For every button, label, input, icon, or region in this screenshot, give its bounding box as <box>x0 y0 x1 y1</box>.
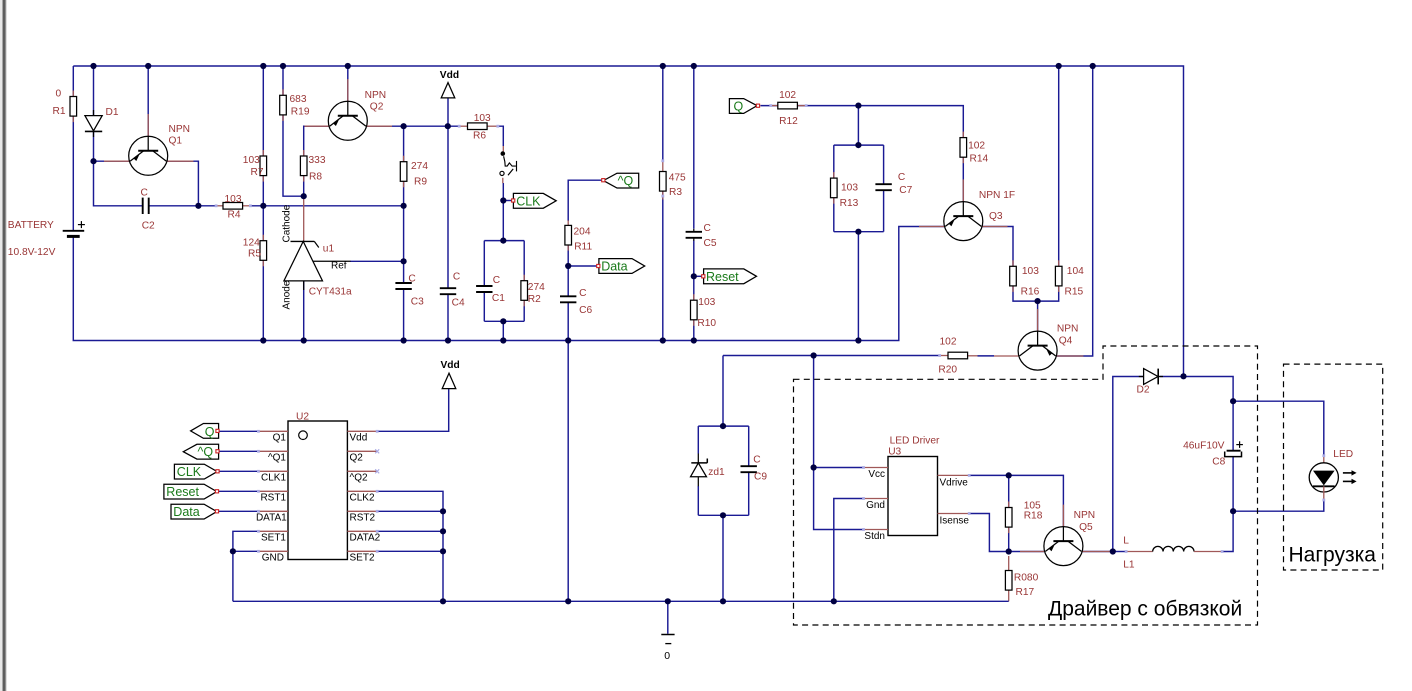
svg-text:Q3: Q3 <box>989 211 1003 222</box>
resistor R19 <box>280 89 310 121</box>
terminal CLK (top) <box>512 193 557 208</box>
resistor R9 <box>400 156 428 188</box>
wire: C8 node down to L1 right <box>1222 511 1233 551</box>
svg-text:RST2: RST2 <box>350 513 376 524</box>
wire: Q1 emitter to D1 node <box>94 160 130 162</box>
wire: Reset tag stub <box>694 275 702 277</box>
wire: Gnd pin down to ground rail <box>834 499 864 602</box>
svg-text:Vdd: Vdd <box>440 70 459 81</box>
resistor R16 <box>1010 260 1040 297</box>
wire: D2 cathode to C8 corner <box>1160 376 1184 378</box>
window border strip <box>0 0 7 691</box>
svg-text:C: C <box>493 275 500 286</box>
svg-text:D2: D2 <box>1137 385 1150 396</box>
svg-text:SET2: SET2 <box>350 553 375 564</box>
svg-text:Vdrive: Vdrive <box>940 477 969 488</box>
svg-text:124: 124 <box>243 237 260 248</box>
wire: R4 right to R9 column <box>250 205 404 207</box>
junction node R8/R19/cathode <box>301 193 307 199</box>
svg-text:C2: C2 <box>142 220 155 231</box>
Vdd symbol (U2) <box>441 360 460 388</box>
diode D1 <box>85 107 119 137</box>
IC U3 LED Driver <box>864 436 970 543</box>
svg-text:NPN: NPN <box>1057 324 1079 335</box>
svg-text:102: 102 <box>779 90 796 101</box>
wire: u1 ref to C3 column <box>350 260 404 262</box>
svg-text:103: 103 <box>225 194 242 205</box>
capacitor C5 <box>686 223 717 249</box>
svg-text:204: 204 <box>574 227 591 238</box>
terminal Data (top) <box>597 259 645 274</box>
svg-text:Vdd: Vdd <box>441 360 460 371</box>
svg-text:0: 0 <box>56 88 62 99</box>
junction node Q4 base <box>1035 298 1041 304</box>
svg-text:DATA1: DATA1 <box>256 513 287 524</box>
svg-text:Reset: Reset <box>166 485 199 499</box>
terminal ^Q (top) <box>602 173 639 188</box>
svg-text:^Q: ^Q <box>198 445 214 459</box>
svg-text:zd1: zd1 <box>708 467 725 478</box>
dashed box: load outline <box>1284 364 1383 570</box>
svg-text:NPN: NPN <box>365 90 387 101</box>
resistor R3 <box>660 162 687 200</box>
capacitor C3 <box>395 274 424 308</box>
resistor R8 <box>300 150 325 183</box>
svg-text:C: C <box>408 274 415 285</box>
svg-text:R7: R7 <box>251 167 264 178</box>
svg-text:LED: LED <box>1333 449 1353 460</box>
resistor R11 <box>565 220 593 252</box>
wire: R7 column <box>262 66 264 156</box>
svg-text:10.8V-12V: 10.8V-12V <box>8 247 56 258</box>
transistor Q2 <box>305 79 393 140</box>
svg-text:R11: R11 <box>574 242 592 253</box>
junction node D1/Q1 emitter <box>90 158 96 164</box>
wire: loop bottom to mid rail <box>857 232 859 341</box>
wire: switch bottom to CLK node and C1 loop <box>502 183 504 241</box>
svg-text:NPN 1F: NPN 1F <box>979 190 1015 201</box>
wire: R8 top from Q2 emitter <box>304 126 330 156</box>
wire: C5/R10 column <box>693 66 695 229</box>
junction nodes CLK column <box>500 197 506 324</box>
wire: C8 column <box>1232 401 1234 451</box>
svg-text:^Q2: ^Q2 <box>350 473 368 484</box>
svg-text:NPN: NPN <box>169 124 191 135</box>
junction dots on mid rail y340.5 <box>260 337 861 343</box>
svg-text:R8: R8 <box>309 172 322 183</box>
resistor R12 <box>771 90 807 127</box>
svg-text:R9: R9 <box>414 177 427 188</box>
wire: LED bottom to C8 node <box>1233 499 1324 511</box>
svg-text:274: 274 <box>411 161 428 172</box>
wire: D1 branch <box>93 66 95 115</box>
wire: Vdd column / C4 <box>447 98 449 126</box>
wire: R20 left to zd1 rail <box>723 355 940 357</box>
svg-text:0: 0 <box>664 650 670 662</box>
IC U2 flip-flop <box>256 412 381 564</box>
svg-text:R10: R10 <box>697 318 716 329</box>
wire: R16 bottom to Q4 base node <box>1013 286 1038 301</box>
svg-text:R12: R12 <box>779 116 798 127</box>
capacitor C2 <box>141 187 156 231</box>
svg-text:Q: Q <box>734 100 744 114</box>
wire: battery bottom / mid ground rail / Q3 base riser <box>73 227 944 341</box>
wire: R8 bottom to cathode node <box>303 176 305 196</box>
svg-text:Нагрузка: Нагрузка <box>1289 544 1377 567</box>
junction nodes Vcc riser <box>811 352 817 470</box>
wire: Vcc/Stdn riser <box>814 356 864 530</box>
junction node SET1/GND <box>230 548 236 554</box>
wire: Q1 collector to C2 node <box>167 161 199 206</box>
regulator u1 CYT431a <box>282 204 353 309</box>
resistor R5 <box>243 235 267 267</box>
wire: top power rail y66 with right drop <box>73 66 1183 376</box>
svg-text:R20: R20 <box>938 365 957 376</box>
svg-text:U2: U2 <box>296 412 309 423</box>
wire: U2 right bus CLK2/RST2/DATA2/SET2 <box>377 491 443 601</box>
wire: R13/C7 loop <box>834 144 884 146</box>
wire: R15 column <box>1058 66 1060 266</box>
wire: Q1 base from rail <box>147 66 149 136</box>
wire: ^Q tag to R11 <box>568 180 604 221</box>
resistor R4 <box>216 194 250 221</box>
svg-text:475: 475 <box>669 173 686 184</box>
switch SW <box>500 146 517 183</box>
capacitor C6 <box>560 288 592 316</box>
wire: R13/C7 loop feed <box>857 106 859 146</box>
svg-text:C1: C1 <box>492 293 505 304</box>
wire: zd1 column feed <box>722 356 724 427</box>
dangling pin x marks (U2 Q2 ^Q2) <box>375 449 379 473</box>
svg-text:Q: Q <box>205 425 215 439</box>
junction node Ref/C3 <box>401 258 407 264</box>
svg-text:R1: R1 <box>53 106 66 117</box>
capacitor C8 electrolytic <box>1183 441 1243 468</box>
terminal Q (U2) <box>191 424 219 439</box>
wire: R11 bottom to Data node, C6 <box>567 244 569 296</box>
svg-text:L1: L1 <box>1123 560 1135 571</box>
wire: Q5 emitter and riser to D2 <box>1081 551 1113 553</box>
pin end marks <box>215 104 1326 553</box>
dashed box: driver outline <box>794 346 1258 625</box>
svg-text:C4: C4 <box>452 298 465 309</box>
svg-text:GND: GND <box>262 553 284 564</box>
wire: ground stem <box>667 601 669 634</box>
junction node Data/R11 <box>565 263 571 269</box>
inductor L1 <box>1123 536 1222 571</box>
wire: U2 left terminal stubs <box>219 430 258 432</box>
svg-text:^Q1: ^Q1 <box>268 453 286 464</box>
terminal Data (U2) <box>171 504 219 519</box>
svg-text:Vdd: Vdd <box>350 433 368 444</box>
zener zd1 <box>691 454 726 487</box>
capacitor C4 <box>440 272 465 309</box>
svg-text:BATTERY: BATTERY <box>8 220 54 231</box>
wire: C8 node to LED top <box>1233 401 1324 456</box>
svg-text:Data: Data <box>601 260 627 274</box>
svg-text:Драйвер с обвязкой: Драйвер с обвязкой <box>1048 598 1242 621</box>
svg-text:Anode: Anode <box>282 280 293 309</box>
terminal ^Q (U2) <box>183 444 219 459</box>
junction dots Q net / R13 C7 loop <box>855 103 861 235</box>
svg-text:R3: R3 <box>669 187 682 198</box>
svg-text:Vcc: Vcc <box>868 469 885 480</box>
svg-text:Q4: Q4 <box>1059 336 1073 347</box>
wire: R18 column <box>1008 475 1010 507</box>
svg-text:Gnd: Gnd <box>866 500 885 511</box>
svg-text:Q1: Q1 <box>169 135 183 146</box>
svg-text:CYT431a: CYT431a <box>309 287 352 298</box>
capacitor C1 <box>476 275 505 304</box>
junction nodes zd1 loop <box>720 423 726 518</box>
junction nodes D2 / C8 <box>1180 373 1236 514</box>
svg-text:L: L <box>1123 536 1129 547</box>
wire: Q5 base <box>1009 551 1045 553</box>
wire: Isense net <box>969 514 1009 552</box>
svg-text:C: C <box>753 454 760 465</box>
svg-text:103: 103 <box>243 155 260 166</box>
LED <box>1309 449 1356 500</box>
terminal Q (top right) <box>729 99 759 114</box>
resistor R15 <box>1055 260 1084 297</box>
Vdd symbol (top) <box>440 70 459 98</box>
svg-text:102: 102 <box>940 336 957 347</box>
resistor R6 <box>459 113 498 141</box>
svg-text:R2: R2 <box>528 294 541 305</box>
svg-text:C9: C9 <box>754 472 767 483</box>
wire: Data tag stub <box>568 265 596 267</box>
svg-text:LED Driver: LED Driver <box>890 436 940 447</box>
svg-text:^Q: ^Q <box>618 174 634 188</box>
wire: battery top to R1 <box>72 66 74 231</box>
wire: C2 right to R4 left <box>149 205 216 207</box>
wire: Q4 base <box>1037 301 1039 331</box>
svg-text:R13: R13 <box>840 198 859 209</box>
ground symbol 0 <box>661 635 674 663</box>
svg-text:Q2: Q2 <box>350 453 364 464</box>
svg-text:274: 274 <box>528 282 545 293</box>
svg-text:Q5: Q5 <box>1079 522 1093 533</box>
wire: u1 cathode <box>303 196 305 241</box>
wire: R14 bottom to Q3 <box>962 157 964 201</box>
junction dots on Q2 collector wire <box>401 123 451 129</box>
wire: Q3 emitter to R16 <box>982 227 1014 267</box>
svg-text:46uF10V: 46uF10V <box>1183 441 1225 452</box>
svg-text:103: 103 <box>841 183 858 194</box>
junction dots on ground rail <box>440 598 837 604</box>
junction node Reset/C5 <box>691 273 697 279</box>
wire: zd1/C9 loop <box>698 425 748 427</box>
terminal Reset (top) <box>702 269 757 284</box>
svg-text:333: 333 <box>309 155 326 166</box>
svg-text:R16: R16 <box>1021 286 1040 297</box>
svg-text:Stdn: Stdn <box>864 531 885 542</box>
svg-text:C6: C6 <box>579 305 592 316</box>
wire: CLK tag stub <box>503 200 511 202</box>
svg-text:104: 104 <box>1067 266 1084 277</box>
wire: Q2 base from rail <box>347 66 349 101</box>
transistor Q4 <box>994 309 1083 370</box>
svg-text:C7: C7 <box>899 185 912 196</box>
wire: R6 right to switch <box>498 126 504 146</box>
svg-text:C5: C5 <box>704 238 717 249</box>
resistor R14 <box>960 132 989 165</box>
wire: u1 anode down <box>303 281 305 341</box>
svg-text:R6: R6 <box>473 130 486 141</box>
svg-text:CLK: CLK <box>516 194 541 208</box>
svg-text:RST1: RST1 <box>260 493 286 504</box>
junction dots on U2 right bus <box>440 508 446 554</box>
wire: R9 / C3 column <box>403 126 405 162</box>
transistor Q5 <box>1020 505 1111 566</box>
svg-text:R080: R080 <box>1014 573 1039 584</box>
resistor R13 <box>831 172 859 209</box>
svg-text:R14: R14 <box>970 154 989 165</box>
wire: Vdrive net <box>969 475 1063 526</box>
svg-text:Cathode: Cathode <box>282 204 293 242</box>
capacitor C7 <box>875 172 912 196</box>
junction nodes Vdrive / Q5 base / Q5 emitter <box>1006 472 1116 554</box>
svg-text:Q1: Q1 <box>273 433 287 444</box>
svg-text:103: 103 <box>474 113 491 124</box>
wire: U2 Vdd pin to Vdd arrow <box>377 389 449 432</box>
svg-text:R19: R19 <box>291 106 310 117</box>
wire: Q4 emitter to top rail <box>1056 66 1093 356</box>
capacitor C9 <box>741 454 768 482</box>
svg-text:683: 683 <box>290 94 307 105</box>
junction dots on top rail <box>90 63 1095 69</box>
svg-text:103: 103 <box>1022 266 1039 277</box>
terminal Reset (U2) <box>164 484 219 499</box>
terminal CLK (U2) <box>174 464 219 479</box>
svg-text:103: 103 <box>698 297 715 308</box>
svg-text:CLK: CLK <box>177 465 202 479</box>
wire: R5 column <box>262 206 264 241</box>
svg-text:C3: C3 <box>411 296 424 307</box>
resistor R10 <box>691 294 717 329</box>
svg-text:C: C <box>141 187 148 198</box>
svg-text:SET1: SET1 <box>261 533 286 544</box>
svg-text:Data: Data <box>173 505 199 519</box>
svg-text:U3: U3 <box>888 447 901 458</box>
svg-text:R18: R18 <box>1024 511 1043 522</box>
svg-text:NPN: NPN <box>1074 510 1096 521</box>
resistor R17 <box>1005 556 1038 598</box>
svg-text:102: 102 <box>968 141 985 152</box>
svg-text:CLK1: CLK1 <box>261 473 286 484</box>
wire: R17 bottom / ground rail <box>1008 590 1010 601</box>
wire: Q tag to R12 to R14 column <box>760 105 778 107</box>
transistor Q3 <box>919 179 1015 240</box>
svg-text:CLK2: CLK2 <box>350 493 375 504</box>
wire: U2 SET1/GND loop <box>233 531 259 551</box>
wire: R3 column <box>662 66 664 162</box>
svg-text:DATA2: DATA2 <box>350 533 381 544</box>
svg-text:C8: C8 <box>1212 457 1225 468</box>
wire: R19 column to cathode node <box>282 66 284 95</box>
battery BATTERY 10.8V-12V <box>8 220 85 258</box>
svg-text:C: C <box>898 172 905 183</box>
svg-text:R17: R17 <box>1016 587 1035 598</box>
diode D2 <box>1137 369 1164 396</box>
svg-text:Reset: Reset <box>706 270 739 284</box>
svg-text:C: C <box>704 223 711 234</box>
svg-text:Isense: Isense <box>940 515 970 526</box>
svg-text:D1: D1 <box>106 107 119 118</box>
resistor R20 <box>938 336 994 375</box>
resistor R18 <box>1005 500 1042 533</box>
svg-text:R15: R15 <box>1065 286 1084 297</box>
svg-text:Q2: Q2 <box>370 101 384 112</box>
svg-text:R4: R4 <box>228 210 241 221</box>
svg-text:C: C <box>453 272 460 283</box>
wire: L1 left to Q5 emitter node <box>1113 551 1126 553</box>
resistor R7 <box>243 150 267 182</box>
wire: Vcc stub <box>814 467 864 469</box>
svg-text:C: C <box>579 288 586 299</box>
svg-text:Ref: Ref <box>331 261 347 272</box>
junction nodes on y205.8 wire <box>195 203 406 209</box>
wire: Q2 collector to Vdd node / R6 <box>366 125 459 127</box>
wire: C1/R2 loop <box>484 240 524 242</box>
transistor Q1 <box>104 114 193 175</box>
resistor R1 <box>53 88 77 122</box>
svg-text:R5: R5 <box>248 248 261 259</box>
resistor R2 <box>521 275 545 307</box>
svg-text:u1: u1 <box>323 244 335 255</box>
